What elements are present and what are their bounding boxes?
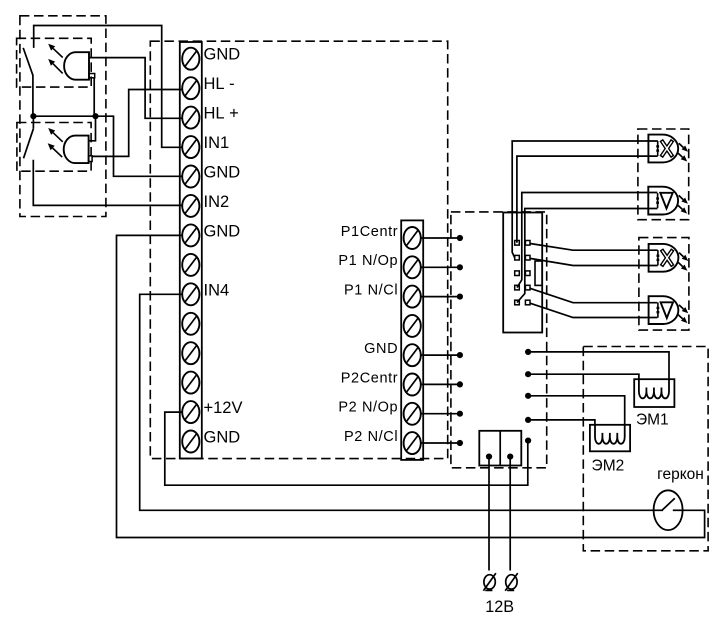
wire VD2 anode up to junction xyxy=(89,116,96,141)
reed switch SF1 left contact xyxy=(654,509,663,511)
node EM bus 1 xyxy=(525,349,531,355)
node EM bus 4 xyxy=(525,417,531,423)
svg-text:P2 N/Cl: P2 N/Cl xyxy=(344,429,398,445)
lamp HL2 (green) light arrow 1 xyxy=(679,195,684,199)
wire lamp1-green bottom feed xyxy=(517,209,657,303)
wire VD1 anode to HL+ xyxy=(89,58,183,119)
terminal X1-4 screw xyxy=(182,136,199,158)
svg-text:GND: GND xyxy=(204,222,241,240)
wire lamp1-red top feed xyxy=(512,141,658,258)
svg-text:+12V: +12V xyxy=(204,399,243,417)
LED VD2 emission arrow 2 xyxy=(53,148,63,157)
svg-text:IN2: IN2 xyxy=(204,193,230,211)
LED VD2 body xyxy=(64,136,89,164)
wire junction bus xyxy=(33,116,183,176)
pin K1 left row3 xyxy=(515,271,520,276)
svg-text:геркон: геркон xyxy=(657,466,704,483)
svg-text:12В: 12В xyxy=(485,598,514,616)
relay module dashed box xyxy=(451,212,547,468)
svg-text:HL +: HL + xyxy=(204,105,239,123)
svg-text:GND: GND xyxy=(204,429,241,447)
12V wire-end symbol 1 xyxy=(483,573,496,591)
terminal X2-3 screw xyxy=(404,286,421,308)
svg-text:P1Centr: P1Centr xyxy=(341,224,398,240)
pin K1 right row1 xyxy=(525,241,530,246)
terminal X1-11 screw xyxy=(182,342,199,364)
electromagnet EM2 coil xyxy=(595,425,625,444)
lamp HL2 (green) body xyxy=(648,187,678,215)
junction node B xyxy=(92,113,98,119)
switch SA1 blade (open) xyxy=(23,48,33,75)
terminal strip X2 body xyxy=(401,220,423,460)
terminal X1-9 screw xyxy=(182,283,199,305)
terminal X1-3 screw xyxy=(182,107,199,129)
terminal X2-4 screw xyxy=(404,315,421,337)
lamp HL3 (red X) body xyxy=(649,244,679,272)
power contact pin 2 xyxy=(507,454,513,460)
wire P2 N/Cl stub xyxy=(421,442,460,444)
terminal X1-1 screw xyxy=(182,48,199,70)
power contact block divider xyxy=(499,431,501,466)
lamp HL1 (red X) pin bar xyxy=(657,141,659,156)
power contact block body xyxy=(479,431,521,466)
lamp unit 1 dashed box xyxy=(638,129,689,220)
wire to lamp2-red top xyxy=(530,244,658,251)
wire to lamp2-red bottom xyxy=(530,258,658,265)
junction node A xyxy=(30,113,36,119)
terminal X1-5 screw xyxy=(182,166,199,188)
lamp HL3 (red X) light arrow 1 xyxy=(679,253,684,257)
sensor assembly outer dashed box xyxy=(20,16,106,217)
pin K1 left row4 xyxy=(515,285,520,290)
svg-text:ЭМ1: ЭМ1 xyxy=(636,411,669,428)
pin K1 right row3 xyxy=(525,271,530,276)
svg-text:GND: GND xyxy=(204,164,241,182)
wire switch2 bottom to IN2 xyxy=(33,160,183,206)
wire node2 to EM1 left xyxy=(528,374,639,379)
lamp HL4 (green) light arrow 1 xyxy=(679,305,684,309)
svg-text:P2Centr: P2Centr xyxy=(341,370,398,386)
pin K1 right row4 xyxy=(525,285,530,290)
lamp HL2 (green) light arrow 2 xyxy=(678,205,683,209)
terminal X1-2 screw xyxy=(182,77,199,99)
main controller dashed box xyxy=(150,41,447,458)
wire to lamp2-green top xyxy=(530,288,657,302)
lamp HL3 (red X) light arrow 2 xyxy=(678,262,683,266)
LED VD2 tab xyxy=(89,156,93,162)
node P1Centr xyxy=(457,235,463,241)
electromagnet EM1 coil xyxy=(639,379,669,398)
wire P2 N/Op stub xyxy=(421,413,460,415)
lamp HL1 (red X) light arrow 1 xyxy=(679,143,684,147)
electromagnet EM2 box xyxy=(590,425,630,452)
wire GND(X1-7) to reed right side xyxy=(117,235,705,537)
node EM bus 3 xyxy=(525,393,531,399)
lamp HL3 (red X) pin dots xyxy=(657,255,660,257)
terminal strip X1 body xyxy=(180,42,202,459)
pin K1 right row2 xyxy=(525,255,530,260)
lamp HL4 (green) body xyxy=(649,296,679,324)
power contact pin 1 xyxy=(486,454,492,460)
lamp HL2 (green) pin bar xyxy=(657,193,659,208)
node P2 N/Cl xyxy=(457,440,463,446)
LED VD2 emission arrow 1 xyxy=(53,133,63,142)
lamp HL2 (green) triangle (go) mark xyxy=(660,193,672,209)
lamp unit 2 dashed box xyxy=(639,238,689,331)
pin K1 left row2 xyxy=(515,255,520,260)
lamp HL4 (green) pin dots xyxy=(657,307,660,309)
electromagnet/reed dashed box xyxy=(583,347,708,551)
LED VD1 body xyxy=(64,52,89,79)
switch SA2 blade (open) xyxy=(24,129,34,159)
terminal X2-6 screw xyxy=(404,374,421,396)
node P2Centr xyxy=(457,381,463,387)
wire lamp1-green top feed xyxy=(517,193,657,288)
wire node3 to EM2 right xyxy=(528,396,625,425)
lamp HL1 (red X) light arrow 2 xyxy=(678,153,683,157)
wire node4 to EM2 left xyxy=(528,420,595,425)
wire P1 N/Cl stub xyxy=(421,296,460,298)
wire pin2 to 12V terminal 2 xyxy=(509,457,511,571)
terminal X1-10 screw xyxy=(182,313,199,335)
terminal X2-1 screw xyxy=(404,227,421,249)
svg-text:P1 N/Op: P1 N/Op xyxy=(338,253,398,269)
svg-text:ЭМ2: ЭМ2 xyxy=(592,458,625,475)
terminal X2-8 screw xyxy=(404,432,421,454)
lamp HL4 (green) light arrow 2 xyxy=(678,315,683,319)
wire VD2 tab to HL- xyxy=(92,90,183,157)
pin K1 right row5 xyxy=(525,300,530,305)
reed switch SF1 body xyxy=(654,490,683,530)
wire P1Centr stub xyxy=(421,237,460,239)
wire +12V to power node xyxy=(165,412,528,485)
wire switch1 bottom to junction xyxy=(32,75,34,117)
terminal X1-14 screw xyxy=(182,431,199,453)
relay block inner rectangle xyxy=(535,261,542,285)
terminal X1-13 screw xyxy=(182,401,199,423)
lamp HL4 (green) triangle (go) mark xyxy=(661,302,673,318)
wire P1 N/Op stub xyxy=(421,266,460,268)
LED VD1 emission arrow 1 xyxy=(53,48,63,57)
wire to lamp2-green bottom xyxy=(530,303,657,317)
wire lamp1-red bottom feed xyxy=(517,156,658,243)
reed switch SF1 right contact xyxy=(673,509,683,511)
lamp HL1 (red X) cross (no-go) mark xyxy=(661,140,672,157)
LED VD1 emission arrow 2 xyxy=(53,64,63,74)
wire node1 to EM1 right xyxy=(528,352,669,379)
wire junction to switch2 top xyxy=(32,116,34,129)
12V wire-end symbol 2 xyxy=(505,573,518,591)
terminal X1-6 screw xyxy=(182,195,199,217)
pin K1 left row5 xyxy=(515,300,520,305)
terminal X1-8 screw xyxy=(182,254,199,276)
svg-text:P1 N/Cl: P1 N/Cl xyxy=(344,282,398,298)
wire P2Centr stub xyxy=(421,383,460,385)
sensor 1 inner dashed box xyxy=(17,38,92,87)
svg-text:IN4: IN4 xyxy=(204,281,230,299)
reed switch SF1 blade xyxy=(662,498,675,510)
lamp HL3 (red X) pin bar xyxy=(657,250,659,265)
wire switch1 top to IN1 (over the top) xyxy=(34,26,183,148)
node EM bus 2 xyxy=(525,371,531,377)
svg-text:HL -: HL - xyxy=(204,75,235,93)
svg-text:GND: GND xyxy=(364,341,398,357)
terminal X1-12 screw xyxy=(182,372,199,394)
wire pin1 to 12V terminal 1 xyxy=(488,457,490,571)
relay block K1 body xyxy=(503,213,542,333)
svg-text:P2 N/Op: P2 N/Op xyxy=(338,400,398,416)
wire VD1 tab down to junction xyxy=(93,78,95,116)
lamp HL1 (red X) body xyxy=(648,135,678,163)
lamp HL2 (green) pin dots xyxy=(656,197,659,199)
node P1 N/Op xyxy=(457,264,463,270)
wire IN4 to reed left side xyxy=(140,294,654,510)
terminal X1-7 screw xyxy=(182,224,199,246)
node GND xyxy=(457,352,463,358)
node P2 N/Op xyxy=(457,411,463,417)
lamp HL1 (red X) pin dots xyxy=(656,145,659,147)
node EM bus 5 (+12V) xyxy=(525,438,531,444)
sensor 2 inner dashed box xyxy=(17,123,91,172)
terminal X2-5 screw xyxy=(404,344,421,366)
LED VD1 tab xyxy=(89,74,95,78)
lamp HL4 (green) pin bar xyxy=(657,303,659,318)
pin K1 left row1 xyxy=(515,241,520,246)
terminal X2-7 screw xyxy=(404,403,421,425)
wire GND stub xyxy=(421,354,460,356)
lamp HL3 (red X) cross (no-go) mark xyxy=(661,249,672,266)
terminal X2-2 screw xyxy=(404,256,421,278)
svg-text:GND: GND xyxy=(204,46,241,64)
node P1 N/Cl xyxy=(457,294,463,300)
svg-text:IN1: IN1 xyxy=(204,134,230,152)
electromagnet EM1 box xyxy=(634,379,674,407)
